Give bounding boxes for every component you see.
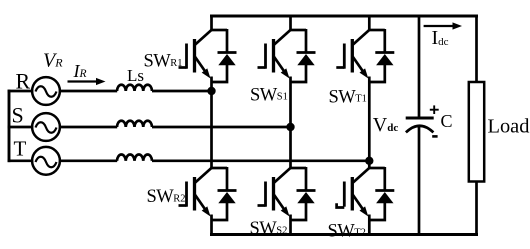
IGBT emitter lead (SW_R1)	[195, 57, 207, 74]
IGBT emitter arrowhead (SW_R2)	[202, 206, 211, 216]
IGBT switch SW_R2 with antiparallel diode	[179, 167, 237, 220]
diode cathode branch wire (SW_S1)	[305, 29, 308, 53]
capacitor C curved negative plate	[406, 126, 434, 133]
diode anode wire (SW_T2)	[369, 203, 385, 221]
wire: collector jog to diode branch (SW_T1)	[369, 29, 385, 32]
wire: leg T from phase node to bottom cell	[368, 161, 371, 169]
IGBT gate lead (SW_R1)	[179, 66, 187, 69]
diode cathode bar (SW_T2)	[375, 189, 394, 192]
diode cathode bar (SW_T1)	[375, 51, 394, 54]
IGBT gate bar (SW_T1)	[343, 44, 346, 69]
diode triangle (SW_R2)	[218, 192, 235, 203]
IGBT body bar (SW_R2)	[193, 177, 196, 211]
wire: capacitor branch lower	[418, 127, 421, 235]
IGBT emitter arrowhead (SW_T2)	[360, 206, 369, 216]
wire: IGBT collector lead (SW_R2)	[195, 167, 212, 182]
wire: collector jog to diode branch (SW_S1)	[291, 29, 307, 32]
inductor Ls phase R	[117, 85, 152, 91]
IGBT emitter lead (SW_T1)	[353, 57, 365, 74]
diode triangle (SW_S2)	[297, 192, 314, 203]
load resistor rectangle	[469, 82, 484, 182]
inductor Ls phase S	[117, 121, 152, 127]
diode anode wire (SW_R1)	[212, 65, 228, 83]
wire: IGBT collector lead (SW_R1)	[195, 29, 212, 44]
IGBT body bar (SW_R1)	[193, 39, 196, 73]
IGBT gate bar (SW_R1)	[185, 44, 188, 69]
wire: collector jog to diode branch (SW_R1)	[212, 29, 228, 32]
IGBT emitter lead (SW_S1)	[274, 57, 286, 74]
diode cathode branch wire (SW_S2)	[305, 167, 308, 191]
wire: phase S from source to inductor	[59, 126, 117, 129]
diode anode wire (SW_R2)	[212, 203, 228, 221]
diode anode wire (SW_S1)	[291, 65, 307, 83]
wire: leg R from phase node to bottom cell	[210, 91, 213, 169]
AC source S (sine symbol)	[32, 113, 60, 141]
wire: phase R stub from bus to source	[8, 90, 34, 93]
svg-text:T: T	[14, 137, 27, 161]
svg-text:Load: Load	[488, 115, 530, 137]
AC source T (sine symbol)	[32, 147, 60, 175]
wire: phase S stub from bus to source	[8, 126, 34, 129]
current arrow Idc	[424, 22, 462, 29]
diode cathode branch wire (SW_T2)	[383, 167, 386, 191]
IGBT gate lead (SW_S2)	[258, 204, 266, 207]
diode cathode bar (SW_R1)	[218, 51, 237, 54]
current arrow IR	[68, 78, 106, 85]
wire: left vertical bus joining three sources	[8, 90, 11, 162]
IGBT gate bar (SW_T2)	[343, 182, 346, 207]
wire: positive DC rail (top)	[210, 15, 478, 18]
IGBT gate lead (SW_T2)	[337, 203, 345, 207]
IGBT switch SW_T2 with antiparallel diode	[337, 167, 395, 220]
wire: phase R from inductor to bridge leg	[152, 90, 212, 93]
wire: leg R upper segment (rail to top cell)	[210, 15, 213, 31]
svg-text:R: R	[16, 69, 31, 94]
node: phase R junction dot	[207, 87, 215, 95]
wire: collector jog to diode branch (SW_T2)	[369, 167, 385, 170]
IGBT body bar (SW_T1)	[351, 39, 354, 73]
wire: leg T upper segment (rail to top cell)	[368, 15, 371, 31]
IGBT emitter lead (SW_R2)	[195, 195, 207, 212]
IGBT switch SW_S1 with antiparallel diode	[258, 29, 316, 82]
wire: leg R from bottom cell to negative rail	[210, 215, 213, 235]
wire: leg T from bottom cell to negative rail	[368, 215, 371, 235]
IGBT emitter arrowhead (SW_S2)	[281, 206, 290, 216]
diode triangle (SW_T2)	[376, 192, 393, 203]
wire: leg S upper segment (rail to top cell)	[289, 15, 292, 31]
wire: load branch lower	[475, 181, 478, 235]
IGBT switch SW_T1 with antiparallel diode	[336, 29, 394, 82]
node: phase T junction dot	[365, 157, 373, 165]
wire: load branch upper	[475, 16, 478, 83]
IGBT gate lead (SW_T1)	[336, 66, 344, 69]
diode triangle (SW_R1)	[218, 54, 235, 65]
IGBT gate bar (SW_S1)	[264, 44, 267, 69]
IGBT switch SW_S2 with antiparallel diode	[258, 167, 316, 220]
diode cathode branch wire (SW_T1)	[383, 29, 386, 53]
IGBT gate bar (SW_S2)	[264, 182, 267, 207]
capacitor C positive plate	[406, 116, 434, 119]
diode cathode bar (SW_S2)	[297, 189, 316, 192]
IGBT emitter lead (SW_S2)	[274, 195, 286, 212]
IGBT gate bar (SW_R2)	[185, 182, 188, 207]
wire: phase R from source to inductor	[59, 90, 117, 93]
IGBT emitter arrowhead (SW_S1)	[281, 68, 290, 78]
diode anode wire (SW_S2)	[291, 203, 307, 221]
wire: phase S from inductor to bridge leg	[152, 126, 291, 129]
IGBT emitter arrowhead (SW_R1)	[202, 68, 211, 78]
wire: IGBT collector lead (SW_T2)	[353, 167, 370, 182]
label - (capacitor polarity)	[432, 135, 437, 138]
IGBT body bar (SW_T2)	[351, 177, 354, 211]
svg-text:C: C	[441, 111, 453, 131]
wire: IGBT collector lead (SW_S2)	[274, 167, 291, 182]
diode anode wire (SW_T1)	[369, 65, 385, 83]
IGBT emitter lead (SW_T2)	[353, 195, 365, 212]
wire: leg S from top cell emitter to phase node	[289, 77, 292, 128]
wire: negative DC rail (bottom)	[210, 233, 478, 236]
IGBT gate lead (SW_S1)	[258, 66, 266, 69]
svg-text:Ls: Ls	[127, 66, 144, 85]
wire: phase T stub from bus to source	[8, 159, 34, 162]
IGBT gate lead (SW_R2)	[179, 204, 187, 207]
wire: leg S from phase node to bottom cell	[289, 127, 292, 169]
wire: IGBT collector lead (SW_T1)	[353, 29, 370, 44]
wire: leg S from bottom cell to negative rail	[289, 215, 292, 235]
AC source R (sine symbol)	[32, 77, 60, 105]
node: phase S junction dot	[286, 123, 294, 131]
IGBT body bar (SW_S1)	[272, 39, 275, 73]
wire: phase T from source to inductor	[59, 159, 117, 162]
IGBT emitter arrowhead (SW_T1)	[360, 68, 369, 78]
diode cathode bar (SW_R2)	[218, 189, 237, 192]
inductor Ls phase T	[117, 155, 152, 161]
IGBT switch SW_R1 with antiparallel diode	[179, 29, 237, 82]
svg-text:S: S	[12, 103, 24, 128]
wire: leg R from top cell emitter to phase node	[210, 77, 213, 92]
IGBT body bar (SW_S2)	[272, 177, 275, 211]
diode triangle (SW_T1)	[376, 54, 393, 65]
diode cathode branch wire (SW_R2)	[226, 167, 229, 191]
diode cathode branch wire (SW_R1)	[226, 29, 229, 53]
wire: collector jog to diode branch (SW_R2)	[212, 167, 228, 170]
wire: collector jog to diode branch (SW_S2)	[291, 167, 307, 170]
diode triangle (SW_S1)	[297, 54, 314, 65]
wire: leg T from top cell emitter to phase node	[368, 77, 371, 161]
wire: phase T from inductor to bridge leg	[152, 159, 369, 162]
wire: IGBT collector lead (SW_S1)	[274, 29, 291, 44]
label + (capacitor polarity)	[430, 105, 439, 114]
wire: capacitor branch upper	[418, 16, 421, 117]
diode cathode bar (SW_S1)	[297, 51, 316, 54]
